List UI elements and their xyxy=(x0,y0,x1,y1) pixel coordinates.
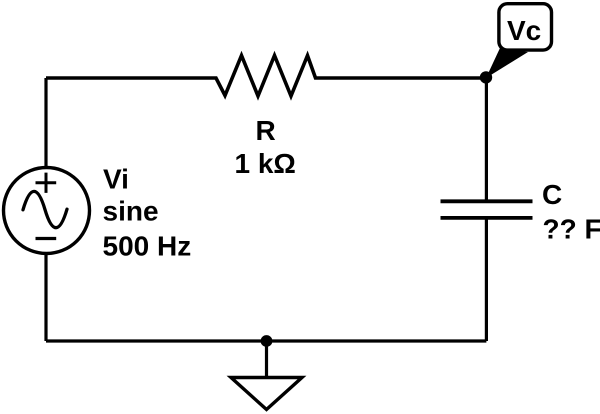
svg-text:sine: sine xyxy=(103,195,159,226)
svg-text:Vi: Vi xyxy=(103,163,129,194)
svg-text:C: C xyxy=(542,179,562,210)
svg-text:Vc: Vc xyxy=(507,15,541,46)
svg-text:1 kΩ: 1 kΩ xyxy=(235,148,296,179)
svg-text:R: R xyxy=(256,115,276,146)
svg-text:500 Hz: 500 Hz xyxy=(103,230,192,261)
svg-text:?? F: ?? F xyxy=(543,214,600,245)
